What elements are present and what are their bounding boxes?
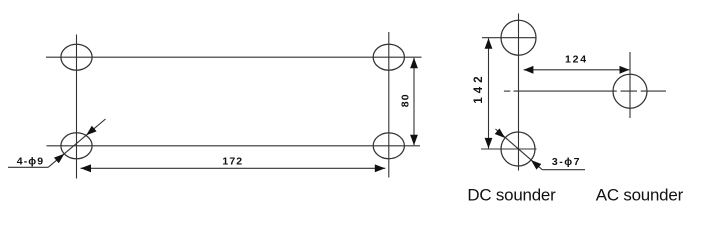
svg-text:142: 142: [473, 72, 485, 103]
svg-text:3-ϕ7: 3-ϕ7: [552, 156, 581, 168]
svg-text:4-ϕ9: 4-ϕ9: [17, 155, 44, 167]
svg-text:124: 124: [565, 53, 588, 65]
svg-text:AC sounder: AC sounder: [596, 185, 684, 204]
svg-text:DC sounder: DC sounder: [467, 185, 556, 204]
svg-text:172: 172: [222, 156, 243, 168]
svg-text:80: 80: [400, 93, 412, 107]
